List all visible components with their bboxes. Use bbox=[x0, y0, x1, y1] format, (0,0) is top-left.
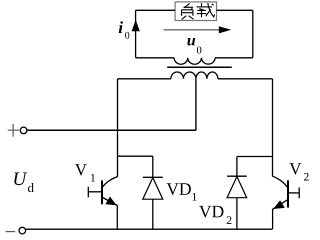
transformer primary winding bbox=[171, 72, 218, 79]
transistor V1 bbox=[88, 177, 117, 206]
label i0 bbox=[119, 21, 130, 38]
wire VD2 cathode lead bbox=[236, 157, 238, 177]
wire primary lead right bbox=[218, 78, 273, 80]
transformer secondary winding bbox=[174, 58, 215, 64]
wire right branch vertical bbox=[272, 79, 274, 177]
wire V2 emitter down bbox=[272, 209, 274, 229]
wire branch to VD2 bbox=[237, 156, 273, 158]
wire load-loop bottom / secondary lead left bbox=[136, 57, 175, 59]
terminal + bbox=[8, 124, 27, 137]
load box (负载) bbox=[175, 2, 216, 21]
wire load-loop right vertical bbox=[252, 10, 254, 58]
wire load-loop top right bbox=[217, 9, 253, 11]
wire branch to VD1 bbox=[118, 155, 153, 157]
label V2 bbox=[289, 163, 308, 180]
label Ud bbox=[14, 173, 34, 193]
wire + to center tap bbox=[27, 129, 196, 131]
diode VD1 bbox=[143, 177, 163, 229]
wire load-loop top left bbox=[136, 9, 176, 11]
wire VD1 cathode lead bbox=[152, 156, 154, 177]
terminal - bbox=[6, 227, 26, 234]
label VD2 bbox=[199, 206, 231, 224]
wire secondary lead right bbox=[215, 57, 253, 59]
transistor V2 bbox=[273, 176, 300, 209]
label u0 bbox=[187, 38, 201, 54]
transformer core bbox=[167, 66, 232, 68]
wire primary lead left bbox=[118, 78, 171, 80]
wire left branch vertical bbox=[117, 79, 119, 177]
wire load-loop left vertical bbox=[135, 10, 137, 58]
center tap wire bbox=[195, 79, 197, 131]
diode VD2 bbox=[227, 176, 247, 229]
current arrow i0 bbox=[132, 20, 140, 31]
voltage arrow u0 bbox=[164, 26, 232, 33]
wire V1 emitter down bbox=[116, 205, 118, 229]
label V1 bbox=[75, 164, 95, 181]
label VD1 bbox=[167, 183, 197, 200]
wire bottom rail bbox=[26, 228, 273, 230]
